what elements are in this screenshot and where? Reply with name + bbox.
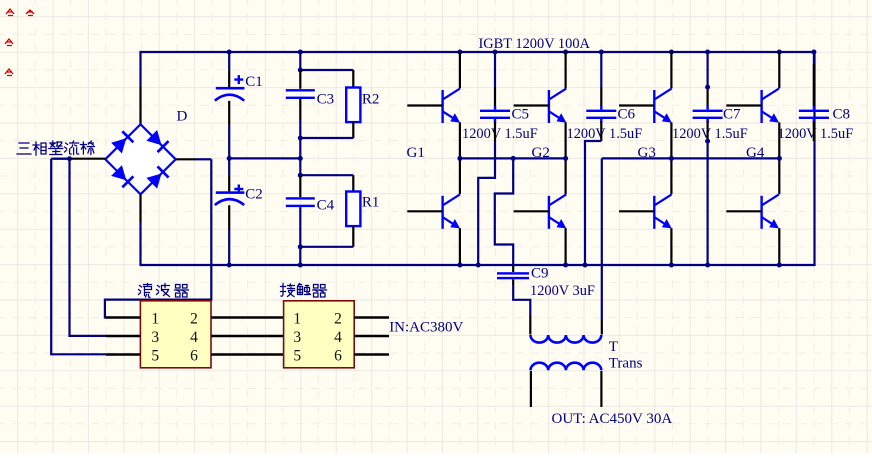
svg-text:R1: R1 (362, 195, 380, 211)
junction bottom bus / G3 emitter (669, 263, 674, 268)
wire C6 bottom to bottom bus (585, 141, 601, 265)
wire phase rail 2 (G3-G4) (602, 157, 780, 159)
wire midpoint link to C3/C4 (229, 157, 300, 159)
wire G1 upper base pin (black) (407, 104, 442, 106)
junction rail1 / G2 (563, 156, 568, 161)
wire C6 bottom pin (black) (600, 121, 602, 141)
wire G1 lower collector pin (black) (459, 158, 461, 194)
wire G4 lower emitter pin (black) (778, 228, 780, 265)
junction bottom bus / G2 emitter (563, 263, 568, 268)
wire rail1 to C9 (jog) (495, 158, 513, 265)
resistor R1 (346, 192, 360, 227)
junction C7 top lead (705, 85, 710, 90)
svg-text:3: 3 (151, 329, 159, 346)
pin 3 stub (filter left) (106, 335, 140, 337)
wire R1 bottom link (300, 246, 353, 248)
wire R1 top pin (black) (352, 175, 354, 191)
svg-text:D: D (177, 109, 188, 125)
wire C9 top pin (black) (512, 265, 514, 272)
wire G1 lower emitter pin (black) (459, 228, 461, 265)
label "桥" (char5) (80, 141, 94, 155)
svg-text:1200V 1.5uF: 1200V 1.5uF (567, 126, 643, 142)
junction bottom bus / C6 branch (583, 263, 588, 268)
transformer T primary winding (531, 335, 602, 343)
wire G2 lower emitter pin (black) (564, 228, 566, 265)
transistor Q3B (lower IGBT G3) (653, 194, 672, 228)
junction top bus / G2 leg (563, 50, 568, 55)
wire C8 bottom pin (black) (813, 121, 815, 141)
junction top bus / G4 leg (777, 50, 782, 55)
svg-text:5: 5 (293, 348, 301, 365)
pin 6 stub (contactor right) (354, 353, 389, 355)
wire R1 top link (300, 174, 353, 176)
wire G3 upper emitter pin (black) (670, 122, 672, 158)
wire R2 bottom pin (black) (352, 122, 354, 138)
capacitor C4 (286, 197, 315, 207)
label "三" (three-phase rectifier label char1) (17, 143, 31, 154)
wire C1 top lead (228, 52, 230, 70)
wire G1 lower base pin (black) (407, 210, 442, 212)
wire R1 bottom pin (black) (352, 226, 354, 247)
junction rail2 / G3 (669, 156, 674, 161)
svg-text:C3: C3 (317, 92, 335, 108)
wire G1 upper collector pin (black) (459, 52, 461, 88)
junction top bus / C3 (298, 50, 303, 55)
capacitor C7 (693, 106, 723, 123)
red mark 4 (5, 69, 13, 76)
junction rail2 / G4 (777, 156, 782, 161)
svg-text:4: 4 (190, 329, 198, 346)
wire T secondary right pin (black) (600, 371, 602, 407)
wire G4 upper base pin (black) (726, 104, 761, 106)
diode D1 (upper-left) (111, 130, 134, 153)
wire bridge right corner (196, 158, 211, 160)
wire C6 top pin (black) (600, 88, 602, 107)
wire C8 pin shading (black) (813, 64, 815, 106)
pin 5 stub (filter left) (106, 353, 140, 355)
wire right edge (C8 branch) (813, 52, 815, 265)
svg-text:1200V 1.5uF: 1200V 1.5uF (778, 126, 854, 142)
capacitor C3 (286, 89, 315, 99)
junction rail1 / G1 (457, 156, 462, 161)
wire G2 upper emitter pin (black) (564, 122, 566, 158)
junction R1 top / C4 (298, 173, 303, 178)
wire phase rail 1 (G1-G2) (460, 157, 566, 159)
wire C1 bottom pin (black) (228, 101, 230, 126)
svg-text:Trans: Trans (609, 356, 643, 372)
pin 4 stub (filter right to contactor) (211, 335, 284, 337)
label "器" (filter label char3) (175, 285, 189, 298)
wire C9 to transformer primary (513, 285, 530, 315)
junction bottom bus / C7 branch (705, 263, 710, 268)
svg-text:C4: C4 (317, 198, 335, 214)
junction midpoint link (298, 156, 303, 161)
wire C5 bottom pin (black) (494, 121, 496, 141)
junction top bus / G3 leg (669, 50, 674, 55)
diode D2 (upper-right) (146, 130, 169, 153)
svg-text:C7: C7 (723, 107, 741, 123)
svg-text:OUT: AC450V 30A: OUT: AC450V 30A (552, 411, 673, 427)
wire C1 bottom lead (228, 126, 230, 159)
wire C9 bottom pin (black) (512, 279, 514, 285)
junction rail1 / C9 branch (511, 156, 516, 161)
svg-text:5: 5 (151, 348, 159, 365)
node bridge top corner pin (139, 52, 141, 86)
junction bottom bus / C4 (298, 263, 303, 268)
transformer T secondary winding (531, 363, 602, 371)
transistor Q4B (lower IGBT G4) (760, 194, 779, 228)
wire G4 lower base pin (black) (726, 210, 761, 212)
wire T primary left pin (black) (529, 315, 531, 335)
svg-text:6: 6 (334, 348, 342, 365)
junction top bus / C7 (705, 50, 710, 55)
wire C3 top lead (299, 52, 301, 70)
wire C1 top pin (black) (228, 70, 230, 87)
svg-text:C5: C5 (512, 107, 530, 123)
junction C7 bottom lead (705, 139, 710, 144)
wire C4 top pin (black) (299, 175, 301, 197)
wire C2 top pin (black) (228, 176, 230, 191)
wire rail2 to transformer primary (601, 158, 603, 320)
wire phase B to filter pin3 (70, 159, 107, 336)
wire T secondary left pin (black) (530, 371, 532, 407)
wire C4 bottom lead (299, 207, 301, 265)
wire phase A to filter pin5 (51, 159, 106, 355)
wire C7 top lead (706, 52, 708, 88)
connector block 滤波器 body (140, 301, 211, 368)
junction top bus / C5 (493, 50, 498, 55)
pin 4 stub (contactor right) (354, 335, 389, 337)
junction bottom bus / C2 (227, 263, 232, 268)
junction top bus / C6 (599, 50, 604, 55)
junction phase B tap (67, 156, 72, 161)
red mark 1 (6, 9, 14, 16)
wire bridge top pin (black) (139, 86, 141, 125)
wire bridge right pin (black) (176, 158, 196, 160)
pin 1 stub (filter left) (106, 316, 140, 318)
wire C6 top lead (600, 52, 602, 88)
wire bridge left pin (black) (54, 158, 105, 160)
wire phase C to filter pin1 (105, 159, 211, 317)
svg-text:IGBT 1200V 100A: IGBT 1200V 100A (479, 36, 591, 52)
wire C7 bottom pin (black) (706, 121, 708, 141)
label "相" (char2) (33, 142, 46, 155)
svg-text:1: 1 (293, 311, 301, 328)
transistor Q2B (lower IGBT G2) (548, 194, 567, 228)
wire G2 upper base pin (black) (514, 104, 549, 106)
wire C3 bottom pin (black) (299, 99, 301, 120)
junction bottom bus / G4 emitter (777, 263, 782, 268)
connector block 接触器 body (284, 301, 355, 368)
wire C2 bottom pin (black) (228, 205, 230, 230)
label "器" (contactor label char3) (313, 285, 327, 298)
svg-text:1200V 1.5uF: 1200V 1.5uF (462, 126, 538, 142)
junction C4 bottom / R1 (298, 244, 303, 249)
transistor Q1B (lower IGBT G1) (441, 194, 460, 228)
wire G3 lower base pin (black) (619, 210, 654, 212)
svg-text:C2: C2 (245, 187, 263, 203)
wire C8 bottom pin (black) (813, 121, 815, 141)
wire bottom DC bus (140, 264, 816, 266)
wire G4 lower collector pin (black) (778, 158, 780, 194)
wire G3 upper base pin (black) (619, 104, 654, 106)
junction C1/C2 midpoint (227, 156, 232, 161)
svg-text:1200V 1.5uF: 1200V 1.5uF (672, 126, 748, 142)
capacitor C5 (480, 106, 510, 123)
diode D4 (lower-right) (146, 166, 169, 189)
wire C8 top pin (black) (813, 88, 815, 107)
wire C2 top lead (228, 158, 230, 176)
red mark 2 (26, 10, 34, 16)
capacitor C2 (215, 185, 245, 206)
wire C8 top lead (813, 52, 815, 88)
label "触" (contactor label char2) (298, 284, 311, 295)
svg-text:IN:AC380V: IN:AC380V (389, 320, 463, 336)
wire G2 lower base pin (black) (514, 210, 549, 212)
wire C2 bottom lead (228, 230, 230, 265)
wire G3 lower emitter pin (black) (670, 228, 672, 265)
wire C3 bottom lead (299, 120, 301, 175)
wire C3 top pin (black) (299, 70, 301, 89)
junction C3/R2 top (298, 68, 303, 73)
svg-text:R2: R2 (362, 91, 380, 107)
pin 2 stub (filter right to contactor) (211, 316, 284, 318)
capacitor C9 (497, 272, 529, 279)
pin 6 stub (filter right to contactor) (211, 353, 284, 355)
wire G4 upper collector pin (black) (778, 52, 780, 88)
transistor Q1A (upper IGBT G1) (441, 89, 460, 123)
wire C7 bottom lead (706, 141, 708, 265)
svg-text:1: 1 (151, 311, 159, 328)
wire C5 top pin (black) (494, 88, 496, 107)
transistor Q2A (upper IGBT G2) (548, 89, 567, 123)
junction top bus / C1 (227, 50, 232, 55)
label "滤" (filter label char1) (139, 284, 152, 298)
capacitor C1 (215, 75, 245, 101)
capacitor C8 (799, 106, 829, 123)
wire T primary right pin (black) (601, 320, 603, 335)
svg-text:2: 2 (190, 311, 198, 328)
wire G3 upper collector pin (black) (670, 52, 672, 88)
wire G1 upper emitter pin (black) (459, 122, 461, 158)
wire top DC bus (139, 51, 815, 53)
resistor R2 (346, 88, 360, 123)
junction top bus / G1 leg (457, 50, 462, 55)
svg-text:C9: C9 (531, 266, 549, 282)
svg-text:4: 4 (334, 329, 342, 346)
label "整" (char3) (49, 141, 63, 155)
svg-text:C1: C1 (245, 74, 263, 90)
label "接" (contactor label char1) (281, 284, 295, 297)
junction bottom bus / G1 emitter (457, 263, 462, 268)
red mark 3 (5, 39, 13, 46)
junction C3 bottom / R2 (298, 136, 303, 141)
junction bottom bus / C5 branch (476, 263, 481, 268)
transistor Q4A (upper IGBT G4) (760, 89, 779, 123)
wire G4 upper emitter pin (black) (778, 122, 780, 158)
wire bridge bottom to bus (139, 222, 141, 265)
wire C7 top pin (black) (706, 88, 708, 107)
wire G3 lower collector pin (black) (670, 158, 672, 194)
wire C5 top lead (494, 52, 496, 88)
wire bridge left to drop (51, 158, 68, 160)
svg-text:C8: C8 (833, 107, 851, 123)
wire C5 bottom to bottom bus (478, 141, 495, 265)
svg-text:3: 3 (293, 329, 301, 346)
wire bridge bottom pin (black) (139, 194, 141, 222)
diode D3 (lower-left) (111, 165, 134, 188)
svg-text:T: T (609, 339, 618, 355)
wire R2 bottom link (300, 137, 353, 139)
svg-text:6: 6 (190, 348, 198, 365)
wire R2 top pin (black) (352, 70, 354, 88)
svg-text:C6: C6 (618, 107, 636, 123)
svg-text:G1: G1 (407, 145, 425, 161)
label "流" (char4) (65, 141, 79, 155)
junction top bus / C8 (811, 50, 816, 55)
wire G2 lower collector pin (black) (564, 158, 566, 194)
capacitor C6 (586, 106, 616, 123)
pin 2 stub (contactor right) (354, 316, 389, 318)
wire G2 upper collector pin (black) (564, 52, 566, 88)
wire R2 top link (300, 69, 353, 71)
diode bridge D body (105, 124, 175, 194)
svg-text:1200V 3uF: 1200V 3uF (530, 283, 595, 299)
svg-text:2: 2 (334, 311, 342, 328)
label "波" (filter label char2) (157, 284, 170, 297)
transistor Q3A (upper IGBT G3) (653, 89, 672, 123)
